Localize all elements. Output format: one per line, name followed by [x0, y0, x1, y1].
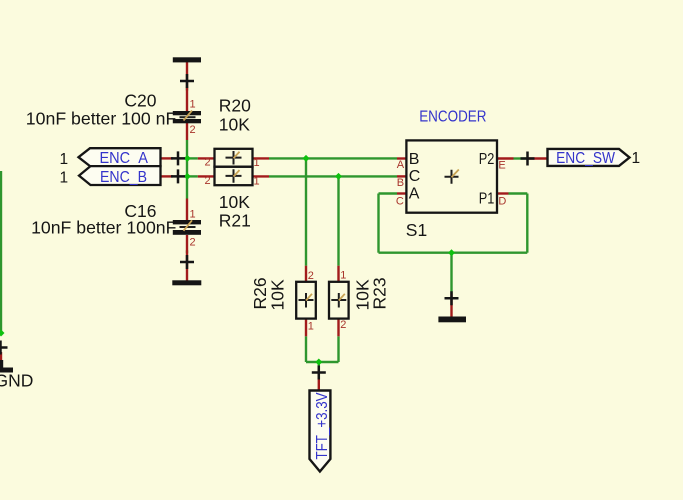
node junction row1 at C20 line	[184, 155, 191, 162]
wire C20 top tiny net	[186, 87, 188, 91]
svg-text:GND: GND	[0, 371, 33, 391]
wire S1 loop bottom	[379, 251, 528, 253]
supply symbol top bar	[173, 57, 201, 62]
pin stub S1 pin B	[397, 157, 406, 159]
svg-text:2: 2	[205, 175, 211, 187]
wire P1 horizontal	[509, 192, 528, 194]
node junction TFT drop	[315, 359, 322, 366]
node junction row2 at C20 line	[184, 173, 191, 180]
svg-text:R21: R21	[219, 211, 251, 231]
pin stub R21 left	[198, 175, 215, 177]
ground bar left edge vertical part	[0, 360, 3, 373]
svg-text:10K: 10K	[219, 192, 250, 212]
pin stub R23 top	[337, 266, 339, 282]
pin stub ENC_SW flag	[528, 157, 548, 159]
svg-text:1: 1	[308, 321, 314, 333]
node cross ENC_B flag origin	[171, 169, 185, 183]
node cross top supply origin	[180, 74, 194, 88]
pin stub encoder ground	[450, 294, 452, 318]
svg-text:2: 2	[308, 270, 314, 282]
node cross C16 ground origin	[180, 255, 194, 269]
pin stub ENC_B flag	[161, 175, 174, 177]
svg-text:A: A	[409, 185, 420, 202]
resistor R23 body	[329, 282, 349, 319]
pin stub C20 pin2	[186, 123, 188, 140]
ground bar under encoder	[438, 317, 466, 323]
svg-text:P2: P2	[479, 151, 495, 168]
wire row2 right segment	[269, 175, 397, 177]
wire R23 vertical	[337, 176, 339, 265]
node left-edge junction	[0, 330, 5, 337]
wire R26 vertical	[305, 158, 307, 265]
pin stub R26 bottom	[305, 318, 307, 336]
node junction row1 at R26	[303, 155, 310, 162]
svg-text:1: 1	[60, 151, 69, 168]
svg-text:2: 2	[205, 157, 211, 169]
svg-text:10K: 10K	[268, 279, 288, 310]
svg-text:1: 1	[632, 150, 641, 167]
pin stub R23 bottom	[337, 318, 339, 336]
node cross TFT flag origin	[312, 366, 326, 380]
svg-text:10K: 10K	[219, 115, 250, 135]
pin stub C16 pin2 to ground	[186, 235, 188, 281]
wire S1 loop left vertical	[377, 194, 379, 253]
pin stub S1 pin C	[397, 175, 406, 177]
wire S1 loop right vertical	[526, 194, 528, 253]
wire R26 bottom	[305, 336, 307, 362]
pin stub S1 pin P1	[497, 192, 509, 194]
svg-text:A: A	[397, 159, 405, 171]
resistor R21 body	[215, 167, 253, 186]
wire encoder ground drop	[450, 253, 452, 294]
pin stub TFT flag	[318, 368, 320, 391]
resistor R26 body	[296, 282, 316, 319]
svg-text:10nF better 100 nF: 10nF better 100 nF	[26, 109, 176, 129]
node cross encoder ground origin	[445, 291, 459, 305]
svg-text:ENC_B: ENC_B	[100, 169, 147, 186]
net flag TFT +3.3V	[310, 391, 331, 472]
svg-text:R20: R20	[219, 96, 251, 116]
pin stub S1 pin A	[397, 192, 406, 194]
svg-text:R23: R23	[370, 277, 390, 309]
svg-text:1: 1	[254, 175, 260, 187]
wire TFT drop	[318, 362, 320, 368]
svg-text:D: D	[498, 196, 506, 208]
svg-text:2: 2	[190, 124, 196, 136]
svg-text:C: C	[409, 168, 421, 185]
wire row1 right segment	[269, 157, 397, 159]
svg-text:10nF better 100nF: 10nF better 100nF	[31, 218, 176, 238]
svg-text:1: 1	[190, 209, 196, 221]
wire left-edge vertical net	[0, 171, 2, 336]
pin stub R21 right	[253, 175, 270, 177]
net flag ENC_SW	[548, 149, 630, 166]
svg-text:ENC_A: ENC_A	[100, 150, 149, 167]
pin stub left-edge ground	[0, 352, 2, 367]
ground bar left edge	[0, 368, 13, 373]
net flag ENC_A	[79, 148, 161, 166]
pin stub C16 pin1	[186, 199, 188, 221]
svg-text:1: 1	[60, 169, 69, 186]
wire C20-to-C16 vertical net	[186, 140, 188, 199]
svg-text:ENC_SW: ENC_SW	[556, 150, 616, 167]
svg-text:S1: S1	[406, 220, 427, 240]
ground bar under C16	[172, 280, 201, 285]
svg-text:P1: P1	[479, 191, 495, 208]
svg-text:TFT_+3.3V: TFT_+3.3V	[314, 392, 331, 459]
wire row2 left segment	[185, 175, 198, 177]
capacitor C20	[173, 111, 201, 124]
wire P2 link	[514, 157, 528, 159]
wire R23 bottom	[337, 336, 339, 362]
wire C16 bottom tiny net	[186, 250, 188, 253]
svg-text:C20: C20	[124, 91, 156, 111]
wire bottom horizontal	[306, 361, 339, 363]
node cross ENC_A flag origin	[171, 151, 185, 165]
pin stub S1 pin P2	[497, 157, 514, 159]
svg-text:1: 1	[190, 99, 196, 111]
svg-text:B: B	[409, 151, 420, 168]
svg-text:1: 1	[340, 270, 346, 282]
pin stub R20 right	[253, 157, 270, 159]
node junction S1 loop bottom	[448, 249, 455, 256]
pin stub ENC_A flag	[161, 157, 174, 159]
capacitor C16	[173, 220, 201, 235]
svg-text:2: 2	[340, 319, 346, 331]
op-amp: encoder S1 body	[406, 140, 497, 212]
resistor R20 body	[215, 149, 253, 167]
svg-text:E: E	[498, 160, 505, 172]
net flag ENC_B	[79, 166, 161, 185]
svg-text:C: C	[396, 196, 404, 208]
svg-text:B: B	[397, 177, 404, 189]
svg-text:1: 1	[254, 157, 260, 169]
svg-text:2: 2	[190, 237, 196, 249]
pin stub top supply to C20	[186, 62, 188, 112]
pin stub R26 top	[305, 266, 307, 282]
svg-text:ENCODER: ENCODER	[419, 108, 486, 125]
node cross left-edge ground origin	[0, 341, 8, 355]
wire row1 left segment	[185, 157, 198, 159]
node junction row2 at R23	[335, 173, 342, 180]
wire pin A horizontal	[379, 192, 398, 194]
node cross ENC_SW flag origin	[521, 152, 535, 166]
pin stub R20 left	[198, 157, 215, 159]
